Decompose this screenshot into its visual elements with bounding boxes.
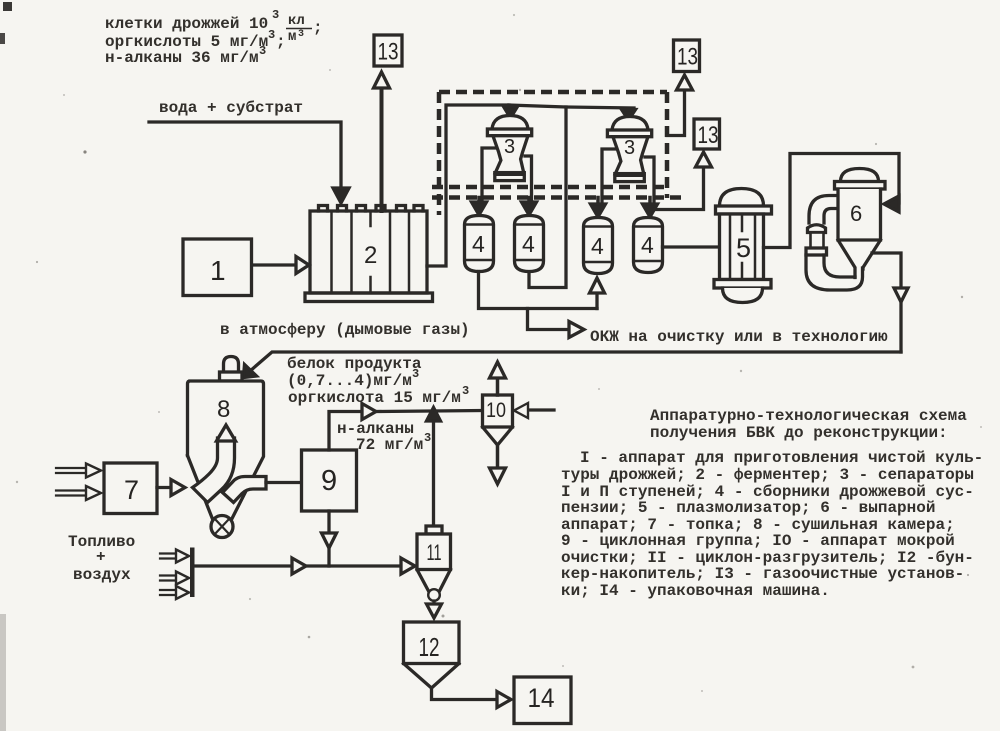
separator 3b side pipes xyxy=(602,149,654,206)
arrow down into bunker 12 xyxy=(427,601,442,618)
unloading cyclone 11 cone xyxy=(417,570,451,592)
evaporator V6 heater body xyxy=(811,233,824,249)
wire fermenter to separators riser xyxy=(427,105,509,266)
evaporator V6 cone xyxy=(838,240,881,278)
svg-text:оргкислота 15 мг/м: оргкислота 15 мг/м xyxy=(288,389,461,407)
arrow OKZh xyxy=(569,322,584,338)
wire 9 down to fuel duct xyxy=(327,511,330,566)
arrow down below 10 xyxy=(490,468,506,484)
wire 7 to dryer xyxy=(157,486,170,489)
svg-text:клетки дрожжей 10: клетки дрожжей 10 xyxy=(105,15,268,33)
wet cleaner 10 cone xyxy=(483,427,513,445)
svg-text:4: 4 xyxy=(522,231,535,257)
svg-text:туры дрожжей; 2 - ферментер; 3: туры дрожжей; 2 - ферментер; 3 - сепарат… xyxy=(561,466,974,484)
svg-text:+: + xyxy=(96,548,106,566)
plasmolyzer V5 top flange xyxy=(716,206,772,214)
wire OKZh takeoff xyxy=(528,309,570,330)
arrow up to 13a xyxy=(374,72,390,88)
dryer V8 outlet duct xyxy=(223,477,267,503)
wire 11 riser xyxy=(432,421,435,526)
wire riser to collectors xyxy=(529,107,566,288)
svg-text:13: 13 xyxy=(677,44,698,71)
double-line arrow air b xyxy=(160,576,176,581)
arrow down into separator Q3a xyxy=(504,107,518,119)
collector 4d xyxy=(634,218,663,273)
arrow into 14 xyxy=(497,692,511,708)
double-line arrow air c xyxy=(160,590,176,595)
arrow up above 10 xyxy=(490,362,506,378)
dashed gas duct rectangle top xyxy=(439,90,667,95)
arrow down on 9 drop xyxy=(322,533,337,548)
svg-text:3: 3 xyxy=(259,44,266,58)
svg-text:3: 3 xyxy=(424,431,431,445)
svg-text:кер-накопитель; I3 - газоочист: кер-накопитель; I3 - газоочистные устано… xyxy=(561,565,964,583)
collector 4c xyxy=(584,218,613,274)
svg-text:11: 11 xyxy=(427,540,442,565)
packing machine 14 box xyxy=(514,677,571,724)
unloading cyclone 11 nozzle xyxy=(426,526,442,534)
unloading cyclone 11 body xyxy=(417,534,451,570)
plasmolyzer V5 dome top xyxy=(720,189,764,207)
wire 10 drain down xyxy=(496,445,500,468)
svg-text:14: 14 xyxy=(528,683,555,713)
svg-text:(0,7...4)мг/м: (0,7...4)мг/м xyxy=(287,372,412,390)
arrow into evaporator right xyxy=(884,196,899,212)
svg-text:2: 2 xyxy=(364,242,377,269)
arrow up from 11 riser xyxy=(427,408,441,422)
fermenter V2 internal dividers xyxy=(332,211,410,293)
svg-text:9 - циклонная группа; IО - апп: 9 - циклонная группа; IО - аппарат мокро… xyxy=(561,532,955,550)
bunker 12 cone xyxy=(404,664,460,689)
svg-text:4: 4 xyxy=(591,233,604,259)
svg-text:3: 3 xyxy=(268,28,275,42)
dashed gas bus B xyxy=(432,195,681,200)
plasmolyzer V5 bottom flange xyxy=(714,280,771,289)
svg-text:пензии; 5 - плазмолизатор; 6 -: пензии; 5 - плазмолизатор; 6 - выпарной xyxy=(561,499,935,517)
svg-text:3: 3 xyxy=(624,137,635,159)
arrow up inside dryer xyxy=(217,425,236,441)
svg-text:4: 4 xyxy=(472,231,485,257)
bunker 12 body xyxy=(404,622,460,664)
svg-text:4: 4 xyxy=(641,232,654,258)
wire into 10 right side xyxy=(528,408,554,411)
plasmolyzer V5 body xyxy=(720,214,764,280)
arrow left into 10 xyxy=(514,403,528,418)
wire water feed xyxy=(149,122,341,190)
separator 3a side pipes xyxy=(482,148,532,200)
fermenter V2 nozzles xyxy=(319,206,424,212)
unloading cyclone 11 outlet circle xyxy=(428,589,440,601)
svg-text:6: 6 xyxy=(850,201,862,226)
plasmolyzer V5 dome bottom xyxy=(723,288,763,303)
svg-text:кл: кл xyxy=(288,13,305,29)
apparatus U1 box xyxy=(183,239,252,296)
double-line arrow air a xyxy=(160,554,176,559)
wire hot gas duct xyxy=(195,564,293,567)
wire 9 gas up to wet cleaner xyxy=(329,412,361,451)
arrow into dryer left xyxy=(171,480,185,496)
arrow down into separator Q3b xyxy=(622,110,636,121)
svg-text:ОКЖ на очистку или в технологи: ОКЖ на очистку или в технологию xyxy=(590,328,888,346)
arrow mid duct xyxy=(292,558,306,574)
svg-text:вода + субстрат: вода + субстрат xyxy=(159,99,303,117)
collector 4a xyxy=(465,216,494,272)
wire evaporator product out xyxy=(872,253,901,352)
arrow down on product line xyxy=(894,288,908,302)
gas-cleaning box 13b xyxy=(674,40,700,72)
arrow into fermenter left xyxy=(296,257,309,274)
evaporator V6 heater bottom flange xyxy=(806,248,827,255)
svg-text:белок продукта: белок продукта xyxy=(287,355,422,373)
svg-text:1: 1 xyxy=(210,255,226,286)
wire dryer gas to cyclones 9 xyxy=(266,481,301,484)
dryer V8 internal elbow pipe xyxy=(193,438,235,503)
wire collector 4d to plasmolyzer xyxy=(663,245,720,248)
arrow into 11 left xyxy=(401,558,415,574)
fuel manifold bar xyxy=(190,548,195,598)
svg-text:I - аппарат для приготовления: I - аппарат для приготовления чистой кул… xyxy=(580,449,983,467)
wire gas to 13b xyxy=(667,91,685,136)
wire collector drain manifold xyxy=(479,272,598,309)
arrow into dryer cap xyxy=(244,365,257,378)
svg-text:в атмосферу (дымовые газы): в атмосферу (дымовые газы) xyxy=(220,321,470,339)
svg-text:Аппаратурно-технологическая сх: Аппаратурно-технологическая схема xyxy=(650,407,967,425)
evaporator V6 body xyxy=(838,189,881,240)
wet cleaner 10 box xyxy=(483,395,513,427)
svg-text:13: 13 xyxy=(378,39,399,66)
evaporator V6 u-bend xyxy=(806,255,863,290)
dryer V8 cap flange xyxy=(220,372,243,381)
svg-text:10: 10 xyxy=(486,399,506,422)
svg-text:ки; I4 - упаковочная машина.: ки; I4 - упаковочная машина. xyxy=(561,582,830,600)
wire U1 to fermenter xyxy=(252,263,295,266)
scan artifact edge mark xyxy=(0,33,5,44)
arrow water into fermenter xyxy=(333,188,349,203)
svg-text:;: ; xyxy=(276,33,286,51)
svg-text:12: 12 xyxy=(419,632,440,662)
svg-text:3: 3 xyxy=(462,384,469,398)
plasmolyzer V5 internals xyxy=(730,214,755,280)
wire plasmolyzer to evaporator xyxy=(764,154,900,248)
arrows into collectors 4 xyxy=(472,202,487,215)
stubs from gas bus to collector arrows xyxy=(479,198,650,206)
svg-text:воздух: воздух xyxy=(73,566,131,584)
svg-text:получения БВК до реконструкции: получения БВК до реконструкции: xyxy=(650,424,948,442)
evaporator V6 dome xyxy=(841,169,879,182)
arrow up into 4c xyxy=(590,278,605,293)
arrow up to 13b xyxy=(677,75,693,90)
svg-text:13: 13 xyxy=(698,122,719,149)
svg-text:;: ; xyxy=(313,19,323,37)
dryer V8 cone left xyxy=(188,456,213,520)
scan artifact corner mark xyxy=(3,2,12,11)
gas-cleaning box 13a xyxy=(374,35,402,66)
evaporator V6 heater collar xyxy=(808,225,826,233)
svg-text:м: м xyxy=(288,29,296,45)
wire vent to gas unit 13a xyxy=(380,89,384,211)
double-line arrow fuel a into 7 xyxy=(56,468,86,473)
dryer V8 rotary valve xyxy=(211,516,233,538)
furnace box 7 xyxy=(104,463,157,514)
svg-text:9: 9 xyxy=(321,465,337,497)
dashed gas duct left side xyxy=(437,92,442,215)
wire riser to collector 4c xyxy=(595,293,598,309)
wire 12 to packer xyxy=(432,688,498,700)
scan artifact left band xyxy=(0,614,6,731)
svg-text:3: 3 xyxy=(412,367,419,381)
wire 10 vent up xyxy=(496,378,500,395)
wire duct to 11 xyxy=(306,564,400,567)
svg-text:н-алканы 36 мг/м: н-алканы 36 мг/м xyxy=(105,49,259,67)
svg-text:3: 3 xyxy=(298,29,304,40)
svg-text:5: 5 xyxy=(736,233,751,263)
arrow right on 9-10 line xyxy=(362,404,376,420)
double-line arrow fuel b into 7 xyxy=(56,491,86,496)
wire separator feed header xyxy=(509,105,634,108)
svg-text:3: 3 xyxy=(504,136,515,158)
fermenter V2 base plate xyxy=(305,293,433,302)
fermenter V2 body xyxy=(310,211,427,293)
cyclone group box 9 xyxy=(302,450,357,511)
svg-text:8: 8 xyxy=(217,396,230,423)
wire product long run to dryer xyxy=(250,352,901,371)
separator 3a xyxy=(492,116,528,130)
svg-text:7: 7 xyxy=(124,475,139,505)
arrow up to 13c xyxy=(696,152,712,167)
dashed gas duct right side xyxy=(665,92,670,198)
evaporator V6 circulation upper elbow xyxy=(809,196,838,224)
svg-text:3: 3 xyxy=(272,8,279,22)
wire to wet cleaner 10 xyxy=(376,411,482,412)
svg-text:72 мг/м: 72 мг/м xyxy=(356,436,423,454)
collector 4b xyxy=(515,216,544,272)
dashed gas bus A xyxy=(432,185,667,190)
scan speckles xyxy=(83,150,86,153)
dryer V8 cap dome xyxy=(224,357,239,373)
gas-cleaning box 13c xyxy=(694,119,720,149)
wire gas to 13c xyxy=(654,168,704,210)
separator 3b xyxy=(612,117,648,131)
dryer V8 body xyxy=(188,381,264,520)
evaporator V6 top flange xyxy=(835,182,886,190)
